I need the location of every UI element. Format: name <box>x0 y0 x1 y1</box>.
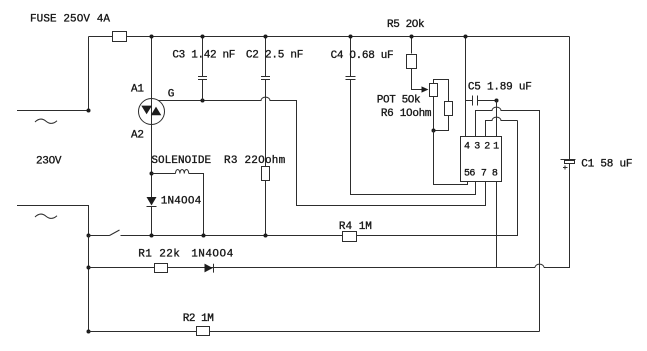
svg-text:2: 2 <box>484 142 490 153</box>
svg-text:FUSE 25OV 4A: FUSE 25OV 4A <box>30 13 110 25</box>
diode D2 1N4004 (pointing right) <box>205 264 213 273</box>
wire: left vertical from top bus to AC upper terminal <box>88 37 90 111</box>
triac Q1 left triangle (down) <box>141 106 152 115</box>
svg-text:C1 58 uF: C1 58 uF <box>581 158 632 170</box>
switch S1 blade (open) <box>89 230 120 236</box>
resistor R1 <box>155 264 168 273</box>
wire: IC pin 3 net, hop over pin1 wire, down right side to bottom bus <box>476 107 540 331</box>
svg-text:R1 22k: R1 22k <box>138 249 180 261</box>
svg-text:R2 1M: R2 1M <box>183 313 214 325</box>
capacitor C3 plates <box>198 77 207 80</box>
wire: switch line to R4 and up to pin2 net <box>121 121 518 236</box>
svg-text:7: 7 <box>481 168 487 179</box>
svg-text:C3 1.42 nF: C3 1.42 nF <box>172 50 235 62</box>
triac Q1 right triangle (up) <box>151 107 162 116</box>
AC source lower sine symbol <box>35 214 57 218</box>
svg-text:4: 4 <box>464 142 470 153</box>
node: junction R3 bottom / switch line <box>264 234 268 238</box>
gate wire from triac to C3 node, hop over C2 branch, down to pin 7 <box>158 97 486 205</box>
wire: triac A2 down to solenoid node <box>151 125 153 198</box>
capacitor C1 top lead from top bus <box>569 37 571 160</box>
svg-text:A1: A1 <box>131 84 144 96</box>
svg-text:3: 3 <box>474 142 480 153</box>
wiper arrow into potentiometer <box>422 86 429 92</box>
wire: R6 bottom to join node <box>434 116 449 131</box>
capacitor C1 bottom plate (solid) <box>565 161 575 164</box>
node: junction pot/R6 bottom <box>432 129 436 133</box>
diode D1 1N4004 (pointing down) <box>147 197 157 206</box>
capacitor C5 left lead <box>466 100 473 102</box>
triac Q1 vertical through <box>151 99 153 125</box>
node: junction top bus / C2 <box>264 35 268 39</box>
svg-text:6: 6 <box>469 168 475 179</box>
wire: AC source upper lead <box>17 110 89 112</box>
solenoid L1 wires <box>152 174 204 236</box>
svg-text:8: 8 <box>492 168 498 179</box>
node: junction top bus / C4 <box>349 35 353 39</box>
node: junction top bus / R5 <box>410 35 414 39</box>
svg-text:R4 1M: R4 1M <box>339 221 372 233</box>
wire: pin4 / C5-left vertical from top bus to IC pin 4 <box>465 37 467 137</box>
node: junction top bus / pin4 branch <box>464 35 468 39</box>
svg-text:C4 O.68 uF: C4 O.68 uF <box>331 50 394 62</box>
wire: D1 cathode to switch line <box>151 206 153 236</box>
svg-text:1: 1 <box>493 142 499 153</box>
svg-text:23OV: 23OV <box>36 155 62 167</box>
potentiometer POT 50k body <box>430 84 438 97</box>
wire: AC source lower lead <box>17 206 89 236</box>
svg-text:C2 2.5 nF: C2 2.5 nF <box>246 50 304 62</box>
wire: IC pin 8 down to R1/C1 line <box>496 182 498 268</box>
capacitor C1 top plate (hollow) <box>561 159 576 161</box>
capacitor C2 plates <box>261 77 270 80</box>
resistor R2 <box>197 327 210 336</box>
wire: R1 / D2 line from left bus to C1 bottom, hop over pin3 net <box>89 164 570 268</box>
resistor R6 body <box>445 102 453 116</box>
svg-text:G: G <box>168 89 175 101</box>
capacitor C4 branch: top bus down, plates, down to pin 6 <box>351 37 476 195</box>
node: junction C5 / pin1 <box>495 99 499 103</box>
wire: IC pin 2 net, hop over pin1 wire, down to switch/R4 line <box>486 117 518 136</box>
wire: top supply bus <box>89 36 570 38</box>
capacitor C3 branch wires <box>202 37 204 101</box>
node: junction solenoid right leg / switch line <box>202 234 206 238</box>
svg-text:R6 1Oohm: R6 1Oohm <box>381 108 432 120</box>
node: junction switch line left <box>87 234 91 238</box>
resistor R5 branch from top bus <box>412 37 422 90</box>
fuse F1 <box>113 32 127 42</box>
wire: pin 1 vertical down to IC <box>496 101 498 137</box>
capacitor C2 branch wires (down through gate hop to R3) <box>265 37 267 236</box>
hop of R1 line over pin3 vertical <box>535 264 544 267</box>
capacitor C1 polarity plus <box>563 166 568 170</box>
capacitor C4 plates <box>346 77 356 80</box>
svg-text:POT 5Ok: POT 5Ok <box>377 94 421 106</box>
svg-text:1N4OO4: 1N4OO4 <box>191 249 233 261</box>
node: junction left bus / R2 bottom bus <box>87 330 91 334</box>
node: junction triac / solenoid branch <box>150 172 154 176</box>
wire: triac branch from top bus <box>151 37 153 99</box>
capacitor C5 plates <box>473 96 478 106</box>
svg-text:A2: A2 <box>131 129 144 141</box>
svg-text:1N4OO4: 1N4OO4 <box>161 195 202 207</box>
node: junction D1 / switch line <box>150 234 154 238</box>
node: junction top bus / triac branch <box>150 35 154 39</box>
resistor R5 body <box>407 55 417 69</box>
wire: left vertical bus (switch line to bottom bus) <box>88 236 90 332</box>
resistor R3 <box>262 167 270 181</box>
IC U1 body <box>461 137 502 182</box>
capacitor C5 right lead to pin1 node <box>478 100 497 102</box>
wire: pot bottom down to join node <box>433 97 435 131</box>
svg-text:SOLENOIDE: SOLENOIDE <box>151 155 211 167</box>
AC source upper sine symbol <box>35 119 57 123</box>
node: junction top bus / C3 <box>201 35 205 39</box>
node: junction gate line / C3 <box>201 99 205 103</box>
solenoid L1 coil <box>176 170 189 174</box>
svg-text:R3 22Oohm: R3 22Oohm <box>224 155 286 167</box>
triac Q1 circle <box>139 99 165 125</box>
node: junction left bus / R1 line <box>87 266 91 270</box>
wire: bottom bus with R2 <box>89 331 540 333</box>
wire: pot top over to R6 top <box>434 80 449 102</box>
svg-text:R5 2Ok: R5 2Ok <box>387 19 425 31</box>
svg-text:C5 1.89 uF: C5 1.89 uF <box>468 82 532 94</box>
wire: pot net down and right to IC pin 5 <box>434 131 468 185</box>
resistor R4 <box>343 232 357 242</box>
node: junction AC upper lead / top bus <box>87 109 91 113</box>
